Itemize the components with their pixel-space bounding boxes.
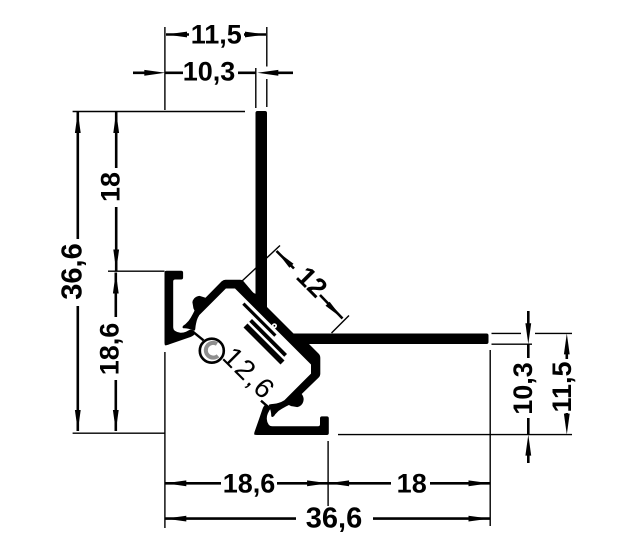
bottom foot (separate trim piece, mirror of left flange) <box>254 405 329 435</box>
extension line top right lower part <box>266 79 268 107</box>
small white dot with black center on channel wall <box>272 323 277 328</box>
leader dash upper for diameter label <box>193 332 204 341</box>
svg-text:18,6: 18,6 <box>95 323 125 376</box>
svg-text:10,3: 10,3 <box>183 56 236 86</box>
cover plate piece A (thin diagonal strip) <box>242 303 276 337</box>
reference line right B y=344.2 <box>492 343 533 345</box>
extension line from top bar left edge down (x=255.8) <box>255 68 257 108</box>
reference line right A y=333.4 <box>492 332 522 334</box>
extension line bottom left (x=164.9) <box>164 352 166 528</box>
profile main body (top wing, right wing, channel walls, wavy neck ends) <box>183 111 489 417</box>
svg-text:18,6: 18,6 <box>223 468 276 498</box>
svg-text:11,5: 11,5 <box>191 19 242 49</box>
reference line bottom right y=434.6 <box>338 434 572 436</box>
dimension 11,5 right: inside arrows vertical <box>565 351 568 359</box>
dimension 12 diagonal: extension line lower <box>332 316 350 334</box>
svg-text:11,5: 11,5 <box>547 361 577 412</box>
reference line bottom left y=433.2 <box>73 432 165 434</box>
svg-text:18: 18 <box>95 172 125 202</box>
dimension text 36,6 bottom <box>297 506 372 530</box>
extension line top left (x=164.9) <box>164 27 166 110</box>
dimension 18 bottom: line with arrows <box>328 482 391 485</box>
reference line top horizontal y=111.5 <box>73 111 245 113</box>
dimension text 18 bottom <box>394 471 426 495</box>
svg-text:18: 18 <box>397 468 427 498</box>
dimension 18,6 bottom: line with arrows <box>165 482 221 485</box>
dimension 10,3 right: outside arrows vertical <box>527 311 530 332</box>
svg-text:10,3: 10,3 <box>508 362 538 415</box>
dimension 11,5 top: line and inward arrowheads <box>166 33 192 36</box>
dimension 36,6 bottom: line with arrows <box>165 517 296 520</box>
diameter symbol circle <box>200 339 224 363</box>
dimension 12 diagonal: extension line upper <box>241 246 280 283</box>
extension line bottom center (x=328.1) <box>327 441 329 526</box>
dimension 18 left: vertical line with arrows <box>115 112 118 168</box>
extension line top right upper part (x=266.8) <box>266 27 268 67</box>
dimension text 10,3 top <box>183 60 238 85</box>
dimension 18,6 left: vertical line with arrows <box>115 273 118 318</box>
cover base strip (wide diagonal strip under plate B) <box>244 324 285 365</box>
dimension text 11,5 top <box>189 22 244 46</box>
extension line bottom right (x=490.2) <box>489 350 491 526</box>
dimension 10,3 top: outside arrows <box>165 72 256 75</box>
dimension 36,6 left: vertical line with arrows <box>77 112 80 239</box>
leader dash lower for diameter label <box>261 401 271 409</box>
cover plate piece B (offset thin diagonal strip) <box>249 319 287 357</box>
svg-text:36,6: 36,6 <box>306 503 362 535</box>
dimension 12 diagonal: shaft and arrowheads <box>277 251 295 269</box>
left flange (separate trim piece with top hook and thin bottom wedge) <box>165 271 195 346</box>
reference line middle left y=271.2 <box>108 270 165 272</box>
grey C inside diameter symbol <box>206 343 218 358</box>
svg-text:36,6: 36,6 <box>56 243 88 299</box>
dimension text 18,6 bottom <box>222 471 276 495</box>
